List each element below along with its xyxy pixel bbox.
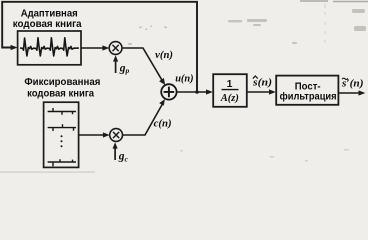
svg-text:s′(n): s′(n) <box>341 78 364 89</box>
svg-text:Адаптивная: Адаптивная <box>21 8 78 19</box>
label s^(n) <box>252 76 272 88</box>
label: Фиксированная кодовая книга <box>24 77 100 100</box>
block: postfilter <box>276 76 338 105</box>
codevector line 3 with pulses <box>48 159 76 166</box>
svg-text:c(n): c(n) <box>154 118 172 129</box>
codevector line 1 with pulses <box>48 108 76 115</box>
ellipsis dots <box>61 135 63 147</box>
svg-text:кодовая книга: кодовая книга <box>13 19 82 30</box>
block: fixed codebook box <box>44 102 79 167</box>
svg-text:Фиксированная: Фиксированная <box>24 77 100 88</box>
wire multiplier to summer, v(n) branch <box>122 48 163 81</box>
svg-text:кодовая книга: кодовая книга <box>27 89 94 100</box>
codevector line 2 with pulses <box>48 124 76 131</box>
label: Адаптивная кодовая книга <box>13 8 82 30</box>
svg-text:фильтрация: фильтрация <box>280 90 337 102</box>
wire fixed codebook to multiplier <box>79 134 104 136</box>
wire summer to synthesis filter <box>177 91 207 93</box>
block: synthesis filter 1/A(z) <box>213 74 247 107</box>
gain gp input arrow <box>113 55 118 73</box>
node junction dot at u(n) tap <box>195 90 199 94</box>
wire adaptive codebook to multiplier <box>81 47 104 49</box>
wire multiplier to summer, c(n) branch <box>122 103 163 135</box>
multiplier (x) adaptive gain stage <box>109 42 122 55</box>
svg-text:1: 1 <box>227 78 233 90</box>
svg-text:v(n): v(n) <box>155 50 173 61</box>
arrowhead into adaptive codebook <box>11 45 18 50</box>
summer (+) <box>161 84 176 99</box>
svg-text:s(n): s(n) <box>252 77 272 88</box>
block: adaptive codebook box <box>18 31 81 65</box>
svg-text:u(n): u(n) <box>175 74 193 85</box>
svg-text:A(z): A(z) <box>220 93 239 104</box>
label s~'(n) output signal <box>341 78 364 89</box>
multiplier (x) fixed gain stage <box>110 129 123 142</box>
wire feedback loop from u(n) node up over the top to adaptive codebook input <box>2 2 197 92</box>
waveform inside adaptive codebook <box>20 38 79 56</box>
wire synthesis filter to postfilter <box>247 91 270 93</box>
gain gc input arrow <box>113 142 118 160</box>
output wire s~'(n) <box>339 92 360 94</box>
